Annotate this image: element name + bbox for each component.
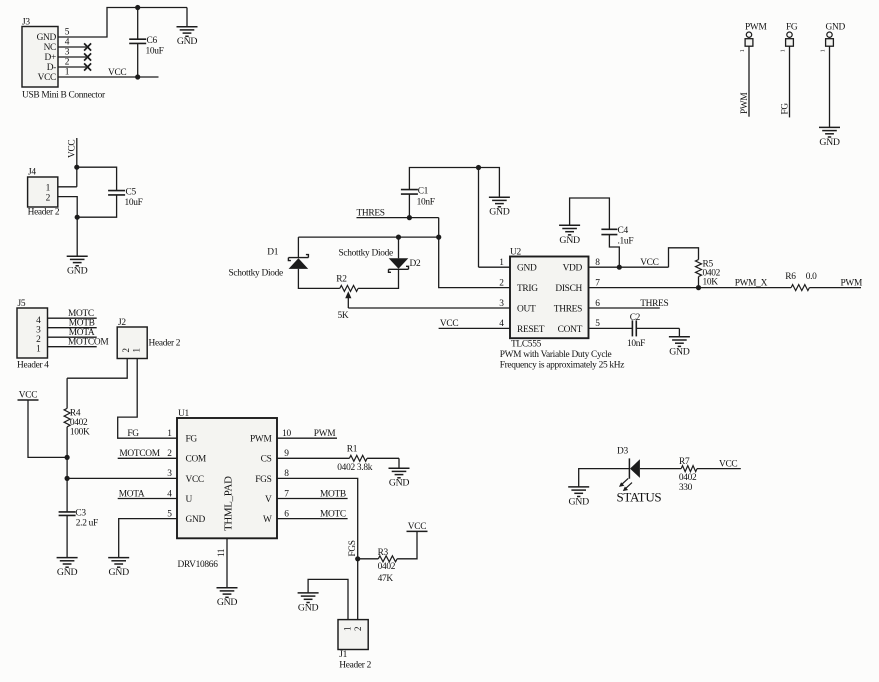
svg-text:GND: GND bbox=[826, 23, 846, 33]
svg-text:8: 8 bbox=[595, 258, 600, 268]
wire C4 bottom to pin8 bbox=[609, 235, 619, 268]
U1 THML_PAD pin name rotated bbox=[223, 476, 235, 531]
capacitor C5 bbox=[108, 188, 143, 208]
U1 right pin name CS bbox=[261, 455, 272, 465]
svg-text:W: W bbox=[263, 515, 272, 525]
wire U2 VDD pin8 bbox=[589, 266, 669, 268]
wire D3 to R7 bbox=[640, 468, 681, 470]
J5 pin number 2 bbox=[36, 335, 41, 345]
J5 pin number 4 bbox=[36, 316, 41, 326]
svg-text:J4: J4 bbox=[28, 168, 36, 178]
svg-text:Header 2: Header 2 bbox=[339, 661, 371, 671]
net label PWM_X bbox=[735, 278, 768, 288]
resistor R1 bbox=[337, 445, 372, 473]
svg-text:FG: FG bbox=[786, 23, 798, 33]
ground below C3 bbox=[57, 558, 78, 579]
svg-text:VCC: VCC bbox=[408, 522, 426, 532]
label Schottky Diode for D2 bbox=[339, 249, 394, 259]
U1 right pin name FGS bbox=[255, 475, 271, 485]
svg-text:MOTB: MOTB bbox=[69, 319, 95, 329]
svg-text:MOTCOM: MOTCOM bbox=[119, 449, 160, 459]
junction U1 VCC pin3 node bbox=[65, 476, 70, 481]
wire C1 to THRES line bbox=[408, 194, 410, 218]
wire VCC to R4 node bbox=[28, 400, 67, 457]
svg-text:VCC: VCC bbox=[186, 475, 204, 485]
wire R2 to D2 bbox=[358, 269, 398, 288]
svg-text:TLC555: TLC555 bbox=[511, 340, 542, 350]
svg-text:Header 2: Header 2 bbox=[149, 338, 181, 348]
svg-text:10uF: 10uF bbox=[146, 46, 164, 56]
U1 right pin name PWM bbox=[250, 435, 272, 445]
capacitor C1 bbox=[401, 186, 435, 207]
wire U2 THRES pin6 bbox=[589, 307, 660, 309]
LED D3 bbox=[617, 446, 640, 478]
wire test point GND stub bbox=[829, 46, 831, 127]
net label FG at U1 pin1 bbox=[127, 429, 139, 439]
ground at R1 bbox=[389, 468, 410, 489]
svg-text:1: 1 bbox=[65, 68, 70, 78]
wire VCC node to U1 pin3 bbox=[67, 477, 177, 479]
U1 value label DRV10866 bbox=[178, 560, 219, 570]
wire J2 pin2 to R4 column bbox=[67, 359, 127, 379]
U2 left pin name TRIG bbox=[517, 284, 538, 294]
svg-text:FG: FG bbox=[127, 429, 139, 439]
U1 left pin name VCC bbox=[186, 475, 204, 485]
U2 pin number 4 bbox=[499, 319, 504, 329]
svg-text:U: U bbox=[186, 495, 193, 505]
svg-text:DISCH: DISCH bbox=[555, 284, 582, 294]
U1 right pin name V bbox=[265, 495, 272, 505]
net label THRES bbox=[357, 208, 385, 218]
ground at D3 bbox=[568, 487, 589, 508]
svg-text:4: 4 bbox=[167, 489, 172, 499]
J4 pin number 2 bbox=[46, 193, 51, 203]
power VCC symbol at R3 bbox=[407, 522, 428, 532]
wire C2 to ground bbox=[636, 328, 679, 336]
junction D2 top bbox=[396, 235, 401, 240]
J3 pin number 1 bbox=[65, 68, 70, 78]
net label PWM at U1 bbox=[314, 429, 336, 439]
svg-text:J3: J3 bbox=[22, 18, 30, 28]
svg-text:STATUS: STATUS bbox=[617, 490, 662, 505]
R2 value 5K bbox=[338, 311, 349, 321]
J3 value label bbox=[22, 91, 106, 101]
net label MOTC bbox=[68, 309, 94, 319]
svg-text:2: 2 bbox=[65, 58, 70, 68]
wire D1 to R2 bbox=[298, 269, 339, 289]
wire J4 pin2 to GND node bbox=[58, 197, 77, 257]
svg-text:PWM: PWM bbox=[841, 278, 863, 288]
J2 value label bbox=[149, 338, 181, 348]
svg-text:47K: 47K bbox=[378, 574, 394, 584]
U2 right pin name THRES bbox=[554, 304, 582, 314]
net label MOTA at U1 bbox=[119, 489, 145, 499]
svg-text:GND: GND bbox=[517, 264, 537, 274]
svg-text:2: 2 bbox=[167, 449, 172, 459]
svg-text:THRES: THRES bbox=[357, 208, 385, 218]
junction J4 VCC node bbox=[74, 165, 79, 170]
svg-text:MOTB: MOTB bbox=[320, 489, 346, 499]
ground below J4 bbox=[67, 256, 88, 277]
wire J3 pin5 to GND rail bbox=[58, 8, 187, 38]
U1 pin number 4 bbox=[167, 489, 172, 499]
svg-text:C3: C3 bbox=[75, 509, 86, 519]
junction R4/VCC node bbox=[65, 455, 70, 460]
svg-text:C1: C1 bbox=[418, 186, 429, 196]
J3 pin number 5 bbox=[65, 28, 70, 38]
junction at C6 bottom bbox=[135, 74, 140, 79]
svg-text:100K: 100K bbox=[70, 428, 90, 438]
svg-text:0402: 0402 bbox=[70, 418, 88, 428]
svg-text:THRES: THRES bbox=[640, 299, 668, 309]
power VCC net stub above J4 bbox=[76, 138, 78, 187]
U1 left pin name FG bbox=[186, 435, 198, 445]
wire top rail C1/GND bbox=[409, 168, 499, 198]
label Schottky Diode for D1 bbox=[229, 268, 284, 278]
svg-text:FGS: FGS bbox=[255, 475, 271, 485]
wire U1 CS to R1 bbox=[277, 457, 349, 459]
svg-text:1: 1 bbox=[343, 627, 353, 631]
svg-text:OUT: OUT bbox=[517, 304, 536, 314]
svg-text:VCC: VCC bbox=[640, 258, 658, 268]
U1 pin number 8 bbox=[284, 469, 289, 479]
svg-text:D-: D- bbox=[47, 63, 56, 73]
IC U2 TLC555 body bbox=[510, 247, 589, 338]
wire U1 GND pin5 bbox=[119, 519, 177, 558]
U2 left pin name RESET bbox=[517, 325, 545, 335]
IC U1 DRV10866 body bbox=[177, 409, 277, 538]
svg-text:THML_PAD: THML_PAD bbox=[223, 476, 235, 531]
svg-text:8: 8 bbox=[284, 469, 289, 479]
U2 left pin name OUT bbox=[517, 304, 536, 314]
J3 pin number 3 bbox=[65, 48, 70, 58]
capacitor C6 bbox=[129, 8, 163, 78]
connector J3 (USB Mini B Connector) bbox=[22, 18, 58, 88]
svg-text:C5: C5 bbox=[126, 188, 137, 198]
wire rail to D1 bbox=[297, 237, 299, 258]
svg-text:1: 1 bbox=[36, 345, 41, 355]
wire U1 PWM pin10 net bbox=[277, 437, 337, 439]
svg-text:GND: GND bbox=[569, 496, 590, 507]
ground at C4 bbox=[559, 225, 580, 246]
capacitor C4 bbox=[601, 226, 633, 246]
svg-text:GND: GND bbox=[669, 346, 690, 357]
net label VCC rotated at J4 bbox=[68, 140, 78, 158]
svg-text:3: 3 bbox=[36, 326, 41, 336]
J3 pin name D- bbox=[47, 63, 56, 73]
wire C5 bottom to GND node bbox=[77, 195, 116, 217]
wire FGS node to R3 bbox=[358, 558, 379, 560]
wire U1 MOTA pin4 bbox=[118, 498, 177, 500]
J3 pin name VCC bbox=[38, 73, 56, 83]
J1 pin number 2 rotated bbox=[353, 627, 363, 631]
wire C3 to ground bbox=[66, 515, 68, 557]
LED D3 arrows bbox=[619, 478, 632, 491]
wire rail to D2 top bbox=[398, 237, 400, 258]
svg-text:PWM: PWM bbox=[314, 429, 336, 439]
net label FG rotated bbox=[781, 103, 791, 115]
svg-text:VDD: VDD bbox=[563, 264, 583, 274]
net label VCC on J3 pin1 bbox=[108, 68, 126, 78]
svg-text:VCC: VCC bbox=[19, 391, 37, 401]
net label PWM right bbox=[841, 278, 863, 288]
svg-text:3: 3 bbox=[65, 48, 70, 58]
svg-text:5: 5 bbox=[65, 28, 70, 38]
J4 value label bbox=[28, 207, 60, 217]
U2 pin number 3 bbox=[499, 299, 504, 309]
svg-text:GND: GND bbox=[57, 567, 78, 578]
svg-text:MOTC: MOTC bbox=[320, 509, 346, 519]
svg-text:10nF: 10nF bbox=[417, 197, 435, 207]
svg-text:0402: 0402 bbox=[378, 562, 396, 572]
ground at J1 bbox=[298, 593, 319, 614]
wire J4 pin1 to VCC bbox=[58, 186, 77, 188]
svg-text:6: 6 bbox=[595, 299, 600, 309]
U2 pin number 5 bbox=[595, 319, 600, 329]
wire J2 to R4 top bbox=[66, 378, 68, 408]
junction TRIG column bbox=[436, 235, 441, 240]
svg-text:MOTA: MOTA bbox=[69, 328, 95, 338]
U2 right pin name VDD bbox=[563, 264, 583, 274]
wire THRES down to TRIG bbox=[439, 218, 510, 288]
U1 pin number 10 bbox=[282, 429, 291, 439]
svg-text:1: 1 bbox=[167, 429, 172, 439]
svg-text:MOTC: MOTC bbox=[68, 309, 94, 319]
junction C1/THRES bbox=[407, 215, 412, 220]
svg-text:RESET: RESET bbox=[517, 325, 545, 335]
net label THRES at pin6 bbox=[640, 299, 668, 309]
net label VCC at R7 bbox=[719, 459, 737, 469]
net label MOTB at U1 bbox=[320, 489, 346, 499]
svg-text:10uF: 10uF bbox=[125, 198, 143, 208]
svg-text:R1: R1 bbox=[347, 445, 358, 455]
svg-text:VCC: VCC bbox=[719, 459, 737, 469]
wire J3 pin2 stub bbox=[58, 66, 86, 68]
J2 pin number 2 rotated bbox=[121, 348, 131, 352]
ground at C2 bbox=[669, 337, 690, 358]
svg-text:2: 2 bbox=[353, 627, 363, 631]
svg-text:PWM: PWM bbox=[740, 93, 750, 114]
svg-text:VCC: VCC bbox=[108, 68, 126, 78]
wire R3 to VCC bbox=[397, 531, 417, 558]
svg-text:VCC: VCC bbox=[68, 140, 78, 158]
svg-text:FG: FG bbox=[186, 435, 198, 445]
wire U1 W pin6 MOTC bbox=[277, 518, 348, 520]
svg-text:D2: D2 bbox=[410, 259, 421, 269]
net label MOTB bbox=[69, 319, 95, 329]
svg-text:J2: J2 bbox=[118, 318, 126, 328]
svg-text:330: 330 bbox=[679, 483, 693, 493]
resistor R7 bbox=[679, 457, 697, 493]
svg-text:10: 10 bbox=[282, 429, 291, 439]
U2 pin number 8 bbox=[595, 258, 600, 268]
svg-text:2: 2 bbox=[499, 278, 504, 288]
svg-text:TRIG: TRIG bbox=[517, 284, 538, 294]
U1 left pin name COM bbox=[186, 455, 207, 465]
svg-text:1: 1 bbox=[820, 50, 827, 53]
svg-text:0402: 0402 bbox=[679, 473, 697, 483]
svg-text:2.2 uF: 2.2 uF bbox=[76, 518, 98, 528]
svg-text:1: 1 bbox=[739, 50, 746, 53]
no-connect X on J3 pin3 bbox=[84, 53, 91, 60]
svg-text:.1uF: .1uF bbox=[618, 236, 634, 246]
U1 pin number 1 bbox=[167, 429, 172, 439]
wire R2 wiper to U2 OUT bbox=[348, 307, 510, 309]
wire J2 pin1 to U1 FG bbox=[118, 359, 177, 439]
J3 pin name NC bbox=[44, 43, 56, 53]
resistor R3 bbox=[378, 548, 398, 584]
svg-text:R4: R4 bbox=[70, 408, 81, 418]
svg-text:7: 7 bbox=[284, 489, 289, 499]
R2 wiper arrow bbox=[345, 291, 351, 308]
svg-text:GND: GND bbox=[109, 567, 130, 578]
wire R7 to VCC bbox=[697, 468, 741, 470]
svg-text:VCC: VCC bbox=[38, 73, 56, 83]
U1 pin number 3 bbox=[167, 469, 172, 479]
power VCC symbol left bbox=[18, 391, 39, 401]
svg-text:GND: GND bbox=[186, 515, 206, 525]
svg-text:GND: GND bbox=[298, 602, 319, 613]
J5 pin number 1 bbox=[36, 345, 41, 355]
wire R1 to ground bbox=[367, 458, 399, 468]
svg-text:1: 1 bbox=[46, 183, 51, 193]
wire R6 to PWM bbox=[809, 287, 861, 289]
no-connect X on J3 pin4 bbox=[84, 43, 91, 50]
test point GND bbox=[820, 23, 846, 53]
svg-text:J5: J5 bbox=[18, 299, 26, 309]
U1 right pin name W bbox=[263, 515, 272, 525]
svg-text:5: 5 bbox=[595, 319, 600, 329]
svg-text:U2: U2 bbox=[510, 247, 521, 257]
svg-text:Frequency is approximately 25: Frequency is approximately 25 kHz bbox=[500, 360, 625, 370]
J2 pin number 1 rotated bbox=[132, 348, 142, 352]
svg-text:C2: C2 bbox=[630, 313, 641, 323]
wire U1 V pin7 MOTB bbox=[277, 498, 348, 500]
no-connect X on J3 pin2 bbox=[84, 63, 91, 70]
wire U2 pin1 to rail bbox=[479, 168, 511, 268]
svg-text:2: 2 bbox=[121, 348, 131, 352]
wire J3 pin3 stub bbox=[58, 56, 86, 58]
svg-text:Header 2: Header 2 bbox=[28, 207, 60, 217]
wire VCC node to C5 bbox=[77, 167, 117, 190]
svg-text:GND: GND bbox=[217, 597, 238, 608]
net label PWM rotated bbox=[740, 93, 750, 114]
svg-text:PWM_X: PWM_X bbox=[735, 278, 768, 288]
svg-text:0.0: 0.0 bbox=[806, 272, 817, 282]
svg-text:GND: GND bbox=[177, 36, 198, 47]
capacitor C2 bbox=[627, 313, 645, 349]
svg-text:COM: COM bbox=[186, 455, 207, 465]
U1 left pin name U bbox=[186, 495, 193, 505]
ground at U1 pin5 bbox=[108, 558, 129, 579]
svg-text:GND: GND bbox=[67, 266, 88, 277]
test point FG bbox=[780, 23, 798, 53]
svg-text:10nF: 10nF bbox=[627, 339, 645, 349]
resistor R5 bbox=[696, 260, 721, 288]
net label MOTCOM at U1 bbox=[119, 449, 160, 459]
svg-text:THRES: THRES bbox=[554, 304, 582, 314]
connector J4 (Header 2) bbox=[28, 168, 58, 208]
net label VCC at VDD bbox=[640, 258, 658, 268]
svg-text:PWM: PWM bbox=[250, 435, 272, 445]
svg-text:C6: C6 bbox=[147, 36, 158, 46]
svg-text:5: 5 bbox=[167, 509, 172, 519]
svg-text:Schottky Diode: Schottky Diode bbox=[339, 249, 394, 259]
capacitor C3 bbox=[59, 509, 98, 529]
wire J5 pin3 MOTB net bbox=[48, 327, 97, 329]
svg-text:2: 2 bbox=[36, 335, 41, 345]
net label MOTA bbox=[69, 328, 95, 338]
net label MOTC at U1 bbox=[320, 509, 346, 519]
ground at J3 rail bbox=[177, 8, 198, 48]
svg-text:5K: 5K bbox=[338, 311, 349, 321]
svg-text:4: 4 bbox=[499, 319, 504, 329]
wire THRES net line bbox=[357, 217, 439, 219]
U1 pin number 7 bbox=[284, 489, 289, 499]
svg-text:1: 1 bbox=[132, 348, 142, 352]
junction C4 bottom bbox=[617, 265, 622, 270]
svg-text:U1: U1 bbox=[178, 409, 189, 419]
svg-text:6: 6 bbox=[284, 509, 289, 519]
wire U2 DISCH pin7 to R6 bbox=[589, 287, 792, 289]
wire J5 pin1 MOTCOM net bbox=[48, 346, 97, 348]
resistor R4 bbox=[64, 408, 90, 437]
J4 pin number 1 bbox=[46, 183, 51, 193]
svg-text:USB Mini B Connector: USB Mini B Connector bbox=[22, 91, 106, 101]
wire D3 cathode to ground bbox=[579, 469, 630, 487]
svg-text:PWM: PWM bbox=[745, 23, 767, 33]
svg-text:PWM with Variable Duty Cycle: PWM with Variable Duty Cycle bbox=[500, 350, 612, 360]
svg-text:GND: GND bbox=[819, 137, 840, 148]
U2 pin number 6 bbox=[595, 299, 600, 309]
svg-text:GND: GND bbox=[37, 33, 57, 43]
svg-text:9: 9 bbox=[284, 449, 289, 459]
net label MOTCOM bbox=[68, 338, 109, 348]
connector J2 (Header 2) bbox=[117, 318, 147, 359]
wire R5 bottom to DISCH line bbox=[698, 277, 700, 288]
svg-text:3: 3 bbox=[499, 299, 504, 309]
svg-text:CS: CS bbox=[261, 455, 272, 465]
svg-text:3: 3 bbox=[167, 469, 172, 479]
svg-text:0402 3.8k: 0402 3.8k bbox=[337, 463, 372, 473]
wire J3 pin1 VCC net bbox=[58, 76, 159, 78]
wire test point PWM stub bbox=[748, 46, 750, 117]
wire J5 pin4 MOTC net bbox=[48, 317, 97, 319]
ground at U1 thermal pad bbox=[217, 588, 238, 609]
U2 pin number 7 bbox=[595, 278, 600, 288]
wire J1 pin1 to ground bbox=[308, 579, 348, 619]
svg-text:GND: GND bbox=[559, 235, 580, 246]
wire J3 pin4 stub bbox=[58, 46, 86, 48]
J3 pin name GND bbox=[37, 33, 57, 43]
svg-text:DRV10866: DRV10866 bbox=[178, 560, 219, 570]
svg-text:D1: D1 bbox=[267, 248, 278, 258]
junction R5/DISCH bbox=[696, 285, 701, 290]
svg-text:1: 1 bbox=[780, 50, 787, 53]
svg-text:2: 2 bbox=[46, 193, 51, 203]
svg-text:4: 4 bbox=[36, 316, 41, 326]
svg-text:R2: R2 bbox=[336, 274, 347, 284]
svg-text:VCC: VCC bbox=[440, 319, 458, 329]
U1 pin number 6 bbox=[284, 509, 289, 519]
diode D2 schottky bbox=[389, 258, 421, 272]
svg-text:1: 1 bbox=[499, 258, 504, 268]
wire J5 pin2 MOTA net bbox=[48, 336, 97, 338]
U1 pin number 2 bbox=[167, 449, 172, 459]
U1 pin number 9 bbox=[284, 449, 289, 459]
J3 pin number 4 bbox=[65, 38, 70, 48]
connector J5 (Header 4) bbox=[17, 299, 48, 358]
